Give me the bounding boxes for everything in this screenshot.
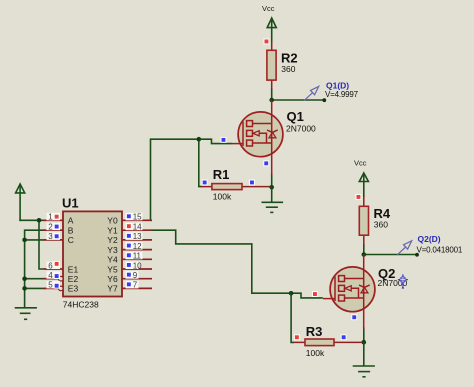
R1 right pin indicator (blue) (250, 180, 255, 185)
svg-text:1: 1 (48, 213, 53, 222)
R4 top pin indicator (red) (356, 195, 361, 200)
Q2 body circle (330, 267, 375, 312)
node: Q1 source junction (269, 185, 274, 190)
svg-text:Q2(D): Q2(D) (418, 234, 441, 244)
pin E2 bubble (59, 276, 64, 281)
wire: Q2 gate jog (291, 293, 322, 298)
pin number white plates right (126, 213, 143, 289)
wire A: power to U1 pin A (20, 219, 44, 221)
IC U1 74HC238 (44, 196, 152, 310)
svg-text:Y7: Y7 (107, 284, 118, 294)
svg-text:R4: R4 (374, 206, 391, 221)
svg-text:2: 2 (48, 223, 53, 232)
Q2 gate bar (334, 277, 336, 302)
node: Q2 source junction (362, 340, 367, 345)
U1 pin stubs left (44, 220, 63, 288)
voltage probe Q2(D) (397, 234, 463, 255)
Q2 drain link (345, 278, 364, 280)
svg-text:V=0.0418001: V=0.0418001 (417, 246, 463, 255)
svg-text:13: 13 (133, 232, 142, 241)
U1 pin stubs right (122, 220, 152, 288)
wire: gate node to Q1 gate (199, 139, 231, 143)
svg-text:R1: R1 (213, 167, 230, 182)
node: probe Q2 attach dot (415, 253, 419, 257)
wire E3: bus to pin E3 (25, 287, 45, 289)
Q1 drain pin (271, 100, 273, 124)
resistor R1 (201, 167, 270, 202)
node: junction at pin A wire (37, 218, 42, 223)
U1 body (63, 211, 122, 296)
Q2 source pin (363, 279, 365, 330)
wire: Q1 source to junction (271, 174, 273, 187)
svg-text:Y4: Y4 (107, 255, 118, 265)
svg-text:Y1: Y1 (107, 226, 118, 236)
Q2 gate lead (323, 298, 335, 300)
Q1 source pin (271, 124, 273, 176)
Q2 source link (345, 297, 364, 299)
pin indicator squares right (15 blue,14 red, rest blue) (126, 214, 131, 287)
Q2 bulk link (351, 288, 359, 298)
svg-text:11: 11 (133, 252, 142, 261)
power symbol (left Vcc arrow) (16, 184, 25, 220)
pin number white plates left (47, 213, 61, 289)
svg-text:6: 6 (48, 261, 53, 270)
svg-text:Y5: Y5 (107, 264, 118, 274)
transistor Q1 2N7000 (NMOS) (221, 100, 316, 175)
svg-text:V=4.9997: V=4.9997 (325, 90, 359, 99)
wire: drain junction to probe Q2(D) (364, 254, 417, 256)
Q1 bulk link (259, 133, 267, 143)
Q1 gate pin indicator (blue) (221, 137, 226, 142)
wire: node down to R1 left (199, 139, 201, 186)
svg-text:5: 5 (48, 281, 53, 290)
node: junction E2 row (22, 276, 27, 281)
node: probe Q1 attach dot (322, 98, 326, 102)
pin E3 bubble (59, 286, 64, 291)
wire: junction down to R3 left (291, 293, 293, 342)
svg-text:B: B (68, 226, 74, 236)
node: Q1 gate junction (197, 137, 202, 142)
ground (left) (16, 308, 37, 320)
pin numbers right (133, 213, 142, 290)
wire E2: bus to pin E2 (25, 278, 45, 280)
svg-text:10: 10 (133, 261, 142, 270)
pin names right (107, 216, 118, 294)
wire: drain junction to probe Q1(D) (272, 99, 325, 101)
voltage probe Q1(D) (304, 81, 358, 101)
svg-text:A: A (68, 216, 74, 226)
svg-text:4: 4 (48, 271, 53, 280)
ground (below Q2) (354, 342, 375, 377)
svg-text:3: 3 (48, 232, 53, 241)
Q1 body diode (269, 132, 276, 138)
wire C: pin C to bus (25, 239, 45, 241)
wire: Q2 source to junction (363, 328, 365, 342)
wire: Y1 (pin14) long route to Q2 area (152, 230, 291, 293)
svg-text:C: C (68, 235, 74, 245)
power symbol Vcc (right, for R4) (359, 173, 368, 197)
svg-text:Y2: Y2 (107, 235, 118, 245)
node: junction C row (22, 238, 27, 243)
Q1 gate lead (231, 143, 243, 145)
Q2 bulk arrow (345, 286, 351, 291)
transistor Q2 2N7000 (NMOS) (313, 255, 408, 330)
node: Q2 drain junction (362, 252, 367, 257)
svg-text:12: 12 (133, 242, 142, 251)
R2 top pin indicator (red) (264, 39, 269, 44)
Q1 channel contacts (247, 121, 253, 127)
svg-text:360: 360 (374, 220, 388, 230)
node: Q1 drain junction (269, 98, 274, 103)
wire: Y0 (pin15) up and over to gate node (151, 139, 199, 220)
svg-text:E2: E2 (68, 274, 79, 284)
svg-text:100k: 100k (213, 192, 232, 202)
pin names left (68, 216, 79, 294)
wire: R4 bottom to Q2 drain junction (363, 245, 365, 255)
svg-text:14: 14 (133, 223, 142, 232)
power symbol Vcc (top, for R2) (267, 18, 276, 41)
Q1 gate bar (242, 122, 244, 147)
svg-text:15: 15 (133, 213, 142, 222)
svg-text:U1: U1 (62, 196, 79, 211)
svg-text:9: 9 (133, 271, 138, 280)
node: Q2 gate junction (289, 291, 294, 296)
ground (below Q1) (262, 187, 282, 212)
Q2 channel contacts (339, 276, 345, 282)
resistor R4 (356, 195, 391, 246)
svg-text:7: 7 (133, 281, 138, 290)
resistor R3 (293, 324, 362, 358)
Q2 origin anchor icon (398, 274, 408, 288)
Q2 drain pin (363, 255, 365, 279)
Q1 drain link (253, 123, 272, 125)
svg-text:E3: E3 (68, 284, 79, 294)
Q1 source link (253, 142, 272, 144)
svg-text:Y0: Y0 (107, 216, 118, 226)
pin indicator squares left (1 red,2 blue,3 blue,6 red,4 blue,5 blue) (54, 214, 59, 288)
svg-text:2N7000: 2N7000 (286, 124, 316, 134)
Q2 body diode (361, 287, 368, 293)
R1 left pin indicator (blue) (202, 180, 207, 185)
svg-text:74HC238: 74HC238 (63, 299, 99, 309)
svg-text:Vcc: Vcc (354, 158, 367, 167)
Q2 source pin indicator (blue) (352, 315, 357, 320)
svg-text:Y3: Y3 (107, 245, 118, 255)
Q1 source pin indicator (blue) (264, 161, 269, 166)
svg-text:E1: E1 (68, 264, 79, 274)
node: junction E3 row (22, 286, 27, 291)
wire B: pin B to ground bus (25, 230, 45, 307)
wire: branch down to E1 (39, 220, 45, 269)
svg-text:Q1: Q1 (287, 109, 304, 124)
R3 left pin indicator (red) (294, 335, 299, 340)
Q1 bulk arrow (253, 131, 259, 136)
R3 right pin indicator (blue) (341, 335, 346, 340)
pin numbers left (48, 213, 53, 290)
svg-text:Vcc: Vcc (262, 4, 275, 13)
svg-text:100k: 100k (306, 348, 325, 358)
svg-text:R3: R3 (306, 324, 323, 339)
Q2 gate pin indicator (red) (313, 292, 318, 297)
resistor R2 (264, 39, 298, 90)
svg-text:360: 360 (281, 64, 295, 74)
wire: R2 bottom to drain junction (271, 89, 273, 100)
svg-text:Y6: Y6 (107, 274, 118, 284)
